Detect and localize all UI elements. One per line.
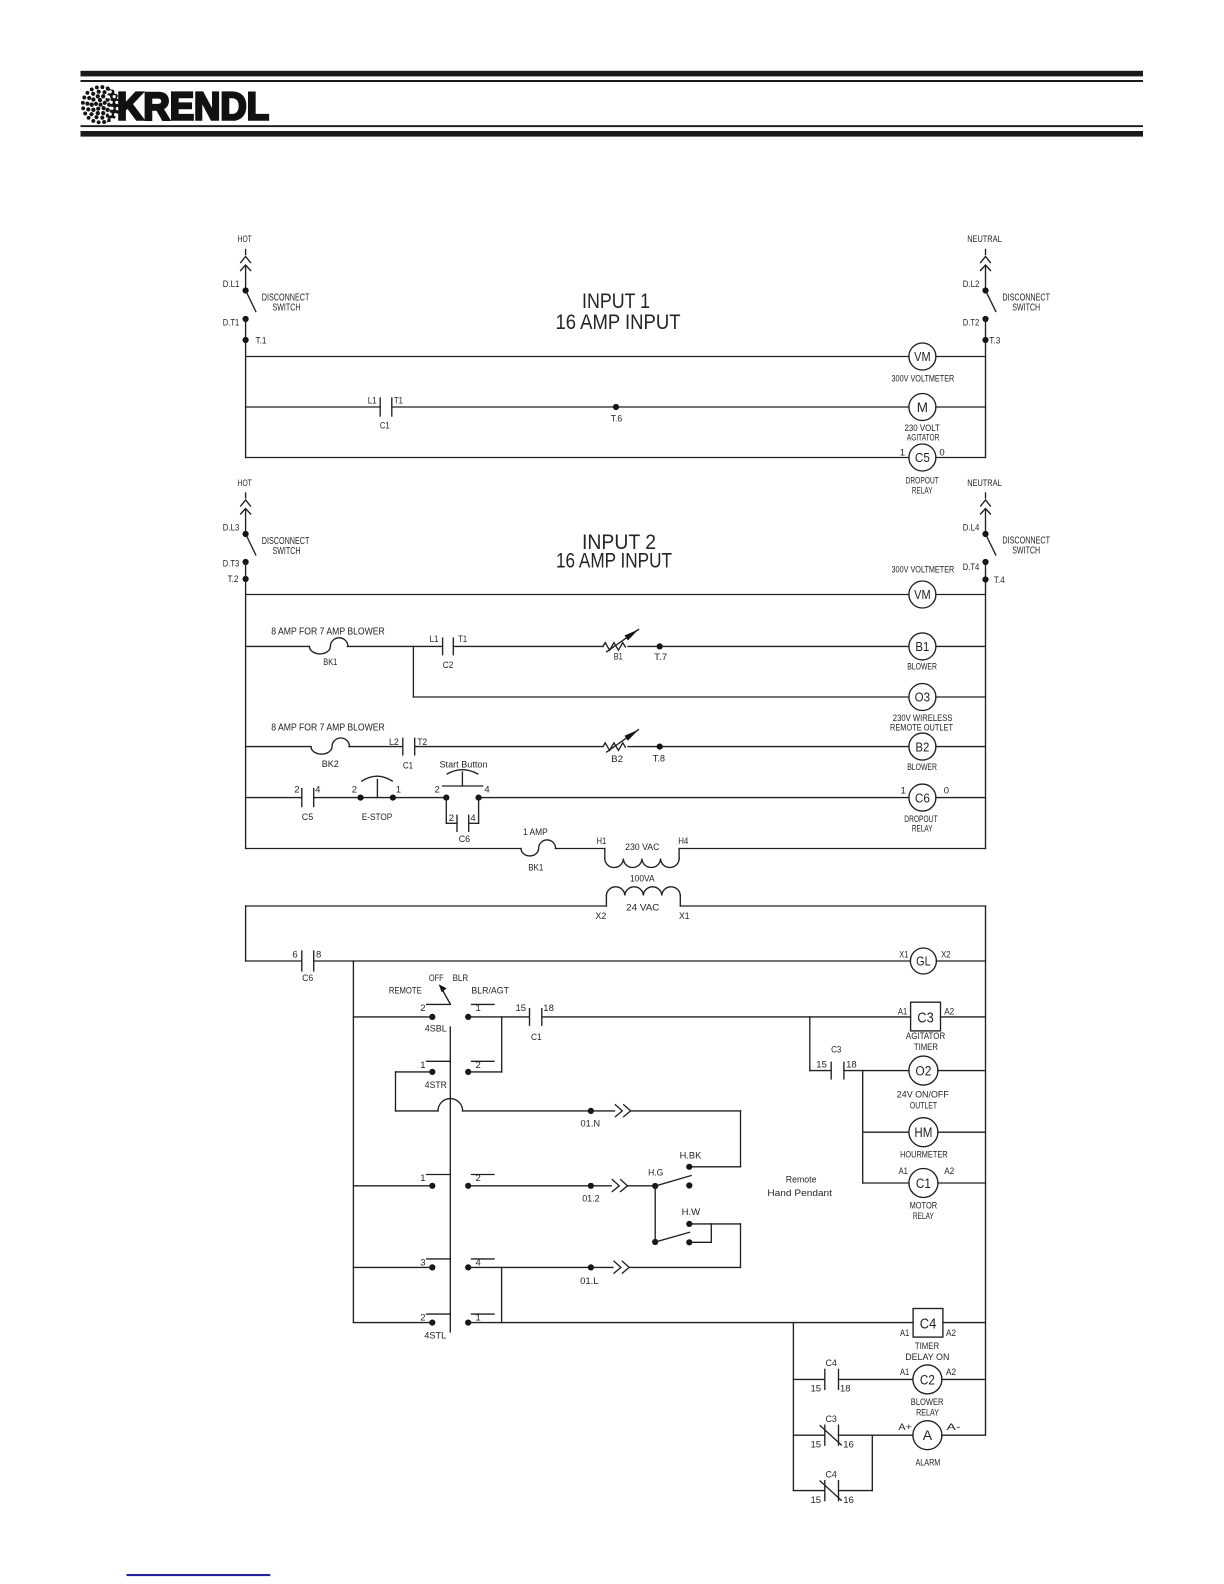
wire junction 4SBL pin1 to 4STR pin2 bbox=[501, 1017, 503, 1072]
contact C4 15/16 (NC) bbox=[811, 1470, 854, 1506]
svg-text:1: 1 bbox=[420, 1060, 425, 1071]
pendant switch H.G common bbox=[648, 1168, 691, 1189]
svg-text:1: 1 bbox=[901, 786, 906, 797]
supply arrow NEUTRAL input 1 bbox=[981, 250, 991, 291]
svg-text:A2: A2 bbox=[944, 1006, 954, 1017]
blower motor B1 bbox=[907, 633, 937, 673]
svg-text:C1: C1 bbox=[916, 1176, 931, 1191]
contact C1 L2/T2 bbox=[389, 737, 427, 772]
svg-text:8 AMP FOR 7 AMP BLOWER: 8 AMP FOR 7 AMP BLOWER bbox=[271, 626, 385, 637]
svg-text:BLR: BLR bbox=[453, 973, 469, 984]
wire 4STL rung to timer C4 bbox=[353, 1322, 913, 1324]
svg-text:A1: A1 bbox=[900, 1328, 909, 1339]
svg-text:X2: X2 bbox=[595, 911, 606, 921]
pushbutton E-STOP (NC) bbox=[352, 776, 401, 823]
node T.6 bbox=[611, 404, 623, 423]
wire 01.L to connector bbox=[591, 1266, 613, 1268]
wire rung motor relay bbox=[863, 1182, 986, 1184]
wire 01.N to connector bbox=[591, 1110, 615, 1112]
svg-text:6: 6 bbox=[292, 949, 297, 960]
svg-text:AGITATOR: AGITATOR bbox=[907, 433, 940, 444]
svg-text:L1: L1 bbox=[368, 395, 377, 405]
pendant contact H.BK bbox=[680, 1150, 702, 1170]
wire C4 to right rail bbox=[943, 1322, 986, 1324]
svg-text:NEUTRAL: NEUTRAL bbox=[967, 478, 1002, 489]
node D.T1 bbox=[223, 316, 249, 329]
label OFF BLR selector positions bbox=[429, 973, 468, 984]
svg-text:Remote: Remote bbox=[786, 1174, 817, 1185]
alarm A (A+/A-) bbox=[898, 1421, 960, 1469]
svg-text:SWITCH: SWITCH bbox=[1012, 303, 1040, 314]
pendant switch H.W bbox=[652, 1207, 740, 1267]
svg-text:15: 15 bbox=[516, 1003, 527, 1014]
svg-text:A2: A2 bbox=[946, 1328, 956, 1339]
contact C5 2/4 bbox=[294, 784, 320, 823]
svg-text:RELAY: RELAY bbox=[912, 823, 933, 834]
svg-text:01.L: 01.L bbox=[580, 1276, 599, 1287]
wire 01.L rung bbox=[353, 1266, 591, 1268]
wire rung 24V outlet bbox=[810, 1070, 986, 1072]
svg-text:C1: C1 bbox=[531, 1032, 542, 1043]
svg-text:O2: O2 bbox=[915, 1063, 931, 1078]
svg-text:C6: C6 bbox=[302, 973, 313, 984]
selector switch 4STR contacts 1/2 bbox=[420, 1060, 494, 1091]
svg-text:RELAY: RELAY bbox=[912, 485, 933, 496]
wire rung transformer primary bbox=[246, 848, 986, 850]
svg-text:C1: C1 bbox=[380, 421, 390, 432]
contact C1 L1/T1 (agitator) bbox=[368, 395, 403, 431]
svg-text:C6: C6 bbox=[915, 790, 930, 805]
node 01.2 bbox=[582, 1183, 600, 1205]
svg-text:HOT: HOT bbox=[238, 234, 252, 245]
svg-text:OUTLET: OUTLET bbox=[910, 1100, 937, 1111]
svg-text:4SBL: 4SBL bbox=[425, 1023, 447, 1034]
svg-text:4: 4 bbox=[315, 784, 320, 795]
svg-text:24V ON/OFF: 24V ON/OFF bbox=[897, 1089, 949, 1100]
svg-text:16: 16 bbox=[843, 1440, 854, 1451]
contact C6 2/4 (seal-in under start button) bbox=[446, 798, 478, 846]
svg-text:C2: C2 bbox=[920, 1372, 935, 1387]
wire junction drop to wireless outlet rung bbox=[412, 646, 414, 697]
node D.T2 bbox=[963, 316, 989, 329]
wire 01.2 to connector bbox=[591, 1185, 611, 1187]
svg-text:4STR: 4STR bbox=[425, 1080, 447, 1091]
svg-text:A2: A2 bbox=[946, 1367, 956, 1378]
svg-text:X1: X1 bbox=[899, 949, 908, 959]
timer C3 (agitator timer) A1/A2 bbox=[898, 1002, 954, 1053]
svg-text:E-STOP: E-STOP bbox=[362, 812, 393, 823]
svg-text:RELAY: RELAY bbox=[913, 1211, 934, 1222]
svg-text:BK2: BK2 bbox=[322, 759, 339, 770]
wire rung blower 1 bbox=[246, 645, 986, 647]
transformer T1 primary winding H1-H4 230 VAC bbox=[597, 836, 689, 885]
svg-text:18: 18 bbox=[846, 1059, 857, 1070]
node T.4 bbox=[982, 575, 1004, 586]
svg-text:4STL: 4STL bbox=[424, 1330, 446, 1341]
disconnect switch blade D.L4 bbox=[963, 523, 996, 556]
svg-text:Start Button: Start Button bbox=[440, 759, 488, 770]
svg-text:D.L4: D.L4 bbox=[963, 523, 980, 534]
svg-text:C4: C4 bbox=[826, 1358, 837, 1369]
circuit breaker BK1 (1 amp control) bbox=[521, 827, 556, 873]
wire right rail input 1 bbox=[985, 319, 987, 458]
node D.T4 bbox=[963, 559, 989, 573]
svg-text:C3: C3 bbox=[917, 1009, 934, 1026]
footer blue rule bbox=[127, 1574, 271, 1576]
svg-text:8: 8 bbox=[316, 949, 321, 960]
svg-text:MOTOR: MOTOR bbox=[910, 1200, 938, 1211]
svg-text:T1: T1 bbox=[394, 395, 403, 405]
svg-text:B1: B1 bbox=[614, 651, 623, 662]
svg-text:230 VAC: 230 VAC bbox=[625, 842, 659, 853]
svg-text:2: 2 bbox=[294, 784, 299, 795]
wire sub-rail selector column bbox=[352, 961, 354, 1323]
node 01.L bbox=[580, 1264, 599, 1287]
contact C2 L1/T1 bbox=[430, 634, 467, 671]
outlet O3 (230V wireless remote outlet) bbox=[890, 684, 953, 734]
svg-text:A-: A- bbox=[947, 1422, 961, 1433]
wire 01.2 rung bbox=[353, 1185, 591, 1187]
node D.T3 bbox=[223, 558, 249, 569]
supply arrow HOT input 2 bbox=[241, 493, 251, 534]
contact C1 15/18 (agitator timer) bbox=[516, 1003, 554, 1043]
svg-text:16 AMP INPUT: 16 AMP INPUT bbox=[556, 311, 681, 334]
lamp GL X1/X2 bbox=[899, 948, 950, 974]
svg-text:VM: VM bbox=[914, 349, 931, 364]
svg-text:4: 4 bbox=[484, 784, 489, 795]
svg-text:SWITCH: SWITCH bbox=[273, 303, 301, 314]
wire junction 3/4 row to 4STL row bbox=[501, 1267, 503, 1322]
svg-text:300V VOLTMETER: 300V VOLTMETER bbox=[892, 565, 955, 576]
svg-text:24 VAC: 24 VAC bbox=[626, 902, 659, 913]
svg-text:A+: A+ bbox=[898, 1422, 912, 1433]
svg-text:BLOWER: BLOWER bbox=[907, 662, 937, 673]
svg-text:H.G: H.G bbox=[648, 1168, 663, 1179]
svg-text:0: 0 bbox=[944, 786, 949, 797]
wire 4SBL rung bbox=[353, 1016, 910, 1018]
svg-text:L1: L1 bbox=[430, 634, 439, 644]
svg-text:A1: A1 bbox=[898, 1006, 907, 1017]
disconnect switch blade D.L3 bbox=[223, 523, 256, 556]
svg-text:O3: O3 bbox=[915, 690, 931, 705]
svg-text:T.4: T.4 bbox=[994, 575, 1005, 586]
selector switch 4STL contacts 2/1 bbox=[420, 1313, 494, 1342]
selector switch contacts 1/2 (remote row) bbox=[420, 1173, 494, 1189]
svg-text:REMOTE OUTLET: REMOTE OUTLET bbox=[890, 723, 953, 734]
svg-text:TIMER: TIMER bbox=[914, 1042, 938, 1053]
svg-text:M: M bbox=[917, 400, 928, 415]
wire 4STR pin1 to 01.N line bbox=[396, 1072, 591, 1111]
svg-text:D.T4: D.T4 bbox=[963, 562, 980, 573]
svg-text:C2: C2 bbox=[443, 660, 454, 671]
relay coil C1 (motor relay) A1/A2 bbox=[899, 1166, 955, 1222]
svg-text:D.L2: D.L2 bbox=[963, 279, 980, 290]
disconnect switch blade D.L2 bbox=[963, 279, 996, 312]
contact C4 15/18 bbox=[811, 1358, 851, 1395]
svg-text:T.7: T.7 bbox=[654, 652, 667, 662]
svg-text:1: 1 bbox=[900, 448, 905, 459]
svg-text:8 AMP FOR 7 AMP BLOWER: 8 AMP FOR 7 AMP BLOWER bbox=[271, 722, 385, 733]
svg-text:2: 2 bbox=[420, 1003, 425, 1014]
svg-text:1: 1 bbox=[396, 784, 401, 795]
svg-text:X2: X2 bbox=[941, 949, 951, 959]
svg-text:2: 2 bbox=[435, 784, 440, 795]
svg-text:BLOWER: BLOWER bbox=[907, 762, 937, 773]
svg-text:BLR/AGT: BLR/AGT bbox=[471, 985, 509, 996]
svg-text:A: A bbox=[923, 1427, 933, 1443]
svg-text:01.N: 01.N bbox=[581, 1119, 601, 1130]
Krendl logo dotted globe bbox=[81, 85, 120, 124]
svg-text:C5: C5 bbox=[302, 812, 313, 823]
svg-text:01.2: 01.2 bbox=[582, 1194, 600, 1205]
selector position arrow bbox=[439, 984, 451, 1004]
svg-text:2: 2 bbox=[449, 813, 454, 824]
connector chevrons 01.N bbox=[615, 1105, 630, 1117]
svg-text:2: 2 bbox=[352, 784, 357, 795]
timer C4 (timer delay on) A1/A2 bbox=[900, 1309, 956, 1364]
svg-text:D.T2: D.T2 bbox=[963, 318, 980, 329]
svg-text:A1: A1 bbox=[900, 1367, 909, 1378]
label DISCONNECT SWITCH (D.L4) bbox=[1002, 536, 1050, 557]
wire rung alarm parallel branch bbox=[793, 1435, 872, 1490]
relay coil C6 (dropout relay) bbox=[901, 784, 950, 834]
contact C6 6/8 bbox=[292, 949, 321, 984]
svg-text:D.L3: D.L3 bbox=[223, 523, 240, 534]
svg-text:H4: H4 bbox=[678, 836, 688, 846]
svg-text:Hand Pendant: Hand Pendant bbox=[767, 1188, 832, 1199]
node T.1 bbox=[243, 336, 267, 347]
wire 01.L to pendant H.W bbox=[630, 1266, 741, 1268]
label DISCONNECT SWITCH (D.L3) bbox=[262, 536, 310, 557]
meter VM (300V voltmeter input 1) bbox=[892, 343, 955, 385]
wire left drop rail for alarm contacts bbox=[792, 1323, 794, 1491]
node T.2 bbox=[228, 574, 249, 585]
wire rung voltmeter input 2 bbox=[246, 594, 986, 596]
svg-text:15: 15 bbox=[811, 1495, 822, 1506]
motor M (230 volt agitator) bbox=[905, 394, 940, 444]
svg-text:GL: GL bbox=[916, 954, 931, 969]
svg-text:B1: B1 bbox=[915, 639, 929, 654]
connector chevrons 01.L bbox=[614, 1261, 629, 1273]
wire left rail input 1 bbox=[245, 319, 247, 458]
svg-text:T.1: T.1 bbox=[256, 336, 267, 347]
svg-text:T2: T2 bbox=[417, 737, 427, 747]
wire junction drop to C3 contact rung bbox=[809, 1017, 811, 1071]
header bottom thick rule bbox=[81, 131, 1144, 137]
svg-text:KRENDL: KRENDL bbox=[117, 86, 269, 129]
svg-text:L2: L2 bbox=[389, 737, 399, 747]
selector switch contacts 3/4 (light row) bbox=[420, 1258, 494, 1271]
circuit breaker BK1 (8 amp) bbox=[309, 638, 348, 668]
svg-text:H.BK: H.BK bbox=[680, 1150, 702, 1161]
supply arrow HOT input 1 bbox=[241, 250, 251, 291]
disconnect switch blade D.L1 bbox=[223, 279, 256, 312]
svg-text:A2: A2 bbox=[944, 1166, 954, 1177]
svg-text:D.T3: D.T3 bbox=[223, 558, 240, 569]
svg-text:T.3: T.3 bbox=[989, 336, 1000, 347]
svg-text:AGITATOR: AGITATOR bbox=[906, 1031, 945, 1042]
wire rung glow lamp GL bbox=[246, 960, 986, 962]
svg-text:B2: B2 bbox=[915, 739, 929, 754]
selector switch 4SBL contacts 2/1 bbox=[420, 1003, 494, 1034]
circuit breaker BK2 (8 amp) bbox=[311, 738, 350, 770]
svg-text:C3: C3 bbox=[826, 1414, 837, 1425]
contact C3 15/18 bbox=[816, 1044, 856, 1079]
wire rung voltmeter input 1 bbox=[246, 356, 986, 358]
svg-text:16: 16 bbox=[843, 1495, 854, 1506]
wire rung wireless remote outlet bbox=[413, 696, 985, 698]
outlet O2 (24V on/off outlet) bbox=[897, 1056, 949, 1111]
supply arrow NEUTRAL input 2 bbox=[981, 493, 991, 534]
svg-text:C6: C6 bbox=[459, 834, 470, 845]
svg-text:2: 2 bbox=[476, 1173, 481, 1184]
svg-text:HOT: HOT bbox=[238, 478, 252, 489]
transformer T1 secondary winding X2-X1 24 VAC bbox=[595, 887, 689, 921]
svg-text:NEUTRAL: NEUTRAL bbox=[967, 234, 1002, 245]
svg-text:16 AMP INPUT: 16 AMP INPUT bbox=[556, 550, 672, 573]
svg-text:REMOTE: REMOTE bbox=[389, 985, 422, 996]
svg-text:RELAY: RELAY bbox=[916, 1407, 939, 1418]
contact C3 15/16 (NC) bbox=[811, 1414, 854, 1451]
wire H.G common down to H.W common bbox=[654, 1186, 656, 1242]
rheostat B2 (blower speed) bbox=[603, 730, 639, 766]
header bottom thin rule bbox=[81, 125, 1144, 127]
svg-text:2: 2 bbox=[476, 1060, 481, 1071]
wire right rail control section bbox=[985, 906, 987, 1435]
svg-text:1 AMP: 1 AMP bbox=[523, 827, 548, 838]
svg-text:18: 18 bbox=[543, 1003, 554, 1014]
wire rung blower 2 bbox=[246, 746, 986, 748]
svg-text:D.L1: D.L1 bbox=[223, 279, 240, 290]
label Remote Hand Pendant bbox=[767, 1174, 832, 1199]
svg-text:H.W: H.W bbox=[682, 1207, 701, 1218]
svg-text:T.8: T.8 bbox=[653, 753, 665, 763]
svg-text:DELAY ON: DELAY ON bbox=[905, 1352, 949, 1363]
header top thin rule bbox=[81, 80, 1144, 82]
svg-text:VM: VM bbox=[914, 587, 931, 602]
svg-text:300V VOLTMETER: 300V VOLTMETER bbox=[892, 374, 955, 385]
svg-text:4: 4 bbox=[470, 813, 475, 824]
svg-text:T.6: T.6 bbox=[611, 413, 623, 423]
hourmeter HM bbox=[900, 1118, 948, 1161]
wire rung dropout relay C5 bbox=[246, 457, 986, 459]
label DISCONNECT SWITCH (D.L2) bbox=[1002, 293, 1050, 314]
svg-text:1: 1 bbox=[476, 1003, 481, 1014]
wire junction drop O2 rung to C1 rung bbox=[862, 1071, 864, 1183]
relay coil C5 (dropout relay) bbox=[900, 444, 945, 496]
svg-text:15: 15 bbox=[811, 1384, 822, 1395]
pendant contact middle (H.G NO) bbox=[686, 1182, 692, 1188]
svg-text:18: 18 bbox=[840, 1384, 851, 1395]
relay coil C2 (blower relay) A1/A2 bbox=[900, 1365, 956, 1418]
pushbutton Start Button (NO) bbox=[435, 759, 490, 800]
svg-text:C4: C4 bbox=[826, 1470, 837, 1481]
svg-text:HOURMETER: HOURMETER bbox=[900, 1149, 948, 1160]
wire right rail input 2 bbox=[985, 562, 987, 849]
svg-text:T1: T1 bbox=[458, 634, 467, 644]
svg-text:15: 15 bbox=[816, 1059, 827, 1070]
wire rung hourmeter bbox=[863, 1131, 986, 1133]
node T.3 bbox=[982, 336, 1000, 347]
svg-text:H1: H1 bbox=[597, 836, 607, 846]
svg-text:B2: B2 bbox=[611, 754, 623, 765]
svg-text:HM: HM bbox=[914, 1125, 932, 1140]
svg-text:BK1: BK1 bbox=[528, 862, 543, 873]
svg-text:C1: C1 bbox=[403, 761, 413, 772]
wire rung blower relay bbox=[793, 1378, 985, 1380]
connector chevrons 01.2 bbox=[612, 1180, 627, 1192]
rheostat B1 (blower speed) bbox=[603, 629, 639, 662]
wire rung agitator motor bbox=[246, 406, 986, 408]
svg-text:C3: C3 bbox=[831, 1044, 841, 1055]
node T.7 bbox=[654, 643, 667, 662]
wire rung dropout relay C6 bbox=[246, 797, 986, 799]
svg-text:100VA: 100VA bbox=[630, 873, 655, 884]
svg-text:C4: C4 bbox=[920, 1316, 937, 1333]
svg-text:SWITCH: SWITCH bbox=[273, 546, 301, 557]
svg-text:BK1: BK1 bbox=[323, 657, 337, 668]
svg-text:X1: X1 bbox=[679, 911, 690, 921]
wire 01.N to hand pendant H.BK bbox=[631, 1111, 741, 1167]
label DISCONNECT SWITCH (D.L1) bbox=[262, 293, 310, 314]
svg-text:OFF: OFF bbox=[429, 973, 444, 984]
wire C3 coil to right rail bbox=[941, 1016, 986, 1018]
wire left rail control section bbox=[245, 906, 247, 961]
svg-text:A1: A1 bbox=[899, 1166, 908, 1177]
blower motor B2 bbox=[907, 733, 937, 773]
svg-text:T.2: T.2 bbox=[228, 574, 239, 585]
wire rung transformer secondary 24 VAC bbox=[246, 905, 986, 907]
wire 4STR pin2 to junction bbox=[468, 1071, 502, 1073]
header top thick rule bbox=[81, 71, 1144, 77]
wire left rail input 2 bbox=[245, 562, 247, 849]
svg-text:INPUT 1: INPUT 1 bbox=[582, 290, 650, 313]
svg-text:ALARM: ALARM bbox=[916, 1457, 941, 1468]
svg-text:15: 15 bbox=[811, 1440, 822, 1451]
svg-text:TIMER: TIMER bbox=[915, 1341, 939, 1352]
svg-text:C5: C5 bbox=[915, 450, 930, 465]
svg-text:0: 0 bbox=[939, 448, 944, 459]
wire 01.2 to pendant switch H.G bbox=[628, 1185, 655, 1187]
node T.8 bbox=[653, 744, 665, 764]
node 01.N bbox=[581, 1108, 601, 1130]
wire rung alarm bbox=[793, 1434, 985, 1436]
meter VM (300V voltmeter input 2) bbox=[909, 581, 936, 608]
svg-text:1: 1 bbox=[420, 1173, 425, 1184]
svg-text:D.T1: D.T1 bbox=[223, 318, 240, 329]
svg-text:SWITCH: SWITCH bbox=[1012, 546, 1040, 557]
selector mechanical link line bbox=[449, 1027, 451, 1332]
